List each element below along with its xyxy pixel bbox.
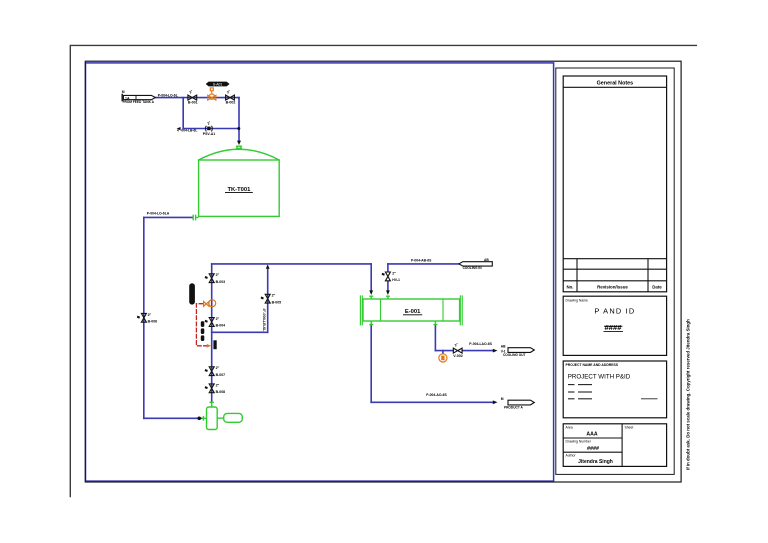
valve B-001 bbox=[188, 95, 197, 100]
valve HV-001 on utility drop bbox=[385, 272, 390, 281]
drawing area blue frame bbox=[86, 63, 554, 481]
svg-text:2″: 2″ bbox=[216, 383, 220, 387]
inline tag at signal arrow bbox=[213, 340, 216, 349]
tank TK-T001 bbox=[193, 146, 279, 221]
valve B-004 below CV bbox=[209, 318, 214, 327]
svg-text:FROM FEED TANK A: FROM FEED TANK A bbox=[123, 100, 155, 104]
bypass valve B-005 bbox=[265, 294, 270, 303]
project box bbox=[563, 361, 666, 418]
stub to TI instrument bbox=[442, 351, 444, 354]
svg-text:PRODUCT A: PRODUCT A bbox=[504, 405, 524, 409]
instrument signal red dashed bbox=[196, 304, 208, 346]
revision table column lines bbox=[576, 259, 578, 292]
pump top stub bbox=[210, 402, 214, 408]
svg-text:PROJECT WITH P&ID: PROJECT WITH P&ID bbox=[568, 374, 631, 381]
svg-text:PROJECT NAME AND ADDRESS: PROJECT NAME AND ADDRESS bbox=[566, 363, 619, 367]
TITLE BLOCK bbox=[563, 76, 666, 466]
svg-text:B-007: B-007 bbox=[216, 373, 226, 377]
pump suction stub bbox=[202, 416, 207, 421]
junction dot bypass/tank feed bbox=[237, 127, 240, 130]
svg-text:B-001: B-001 bbox=[188, 101, 198, 105]
svg-text:PSV-A1: PSV-A1 bbox=[203, 132, 216, 136]
svg-text:COOLING OUT: COOLING OUT bbox=[503, 353, 526, 357]
svg-text:2″: 2″ bbox=[216, 317, 220, 321]
revision table row lines bbox=[563, 258, 666, 260]
pipe: pump discharge riser bbox=[211, 264, 213, 402]
pipe: top header to exchanger bbox=[212, 263, 372, 265]
pipe: utility feed from flag B bbox=[388, 263, 459, 265]
svg-text:No.: No. bbox=[566, 285, 573, 290]
tube sheet lines bbox=[381, 299, 444, 321]
flag A: feed inlet connector bbox=[123, 95, 155, 99]
svg-text:If in doubt ask. Do not scale: If in doubt ask. Do not scale drawing. C… bbox=[686, 319, 691, 470]
svg-text:2″: 2″ bbox=[392, 271, 396, 275]
pipe: exchanger bottom-right outlet drop bbox=[434, 326, 436, 351]
pump motor bbox=[224, 413, 243, 422]
flag B: utility supply connector bbox=[459, 262, 492, 266]
pipe: outlet run to flag D bbox=[371, 401, 494, 403]
pipe: exchanger bottom-left outlet drop bbox=[370, 326, 372, 403]
flag C: cooling return connector bbox=[508, 348, 534, 353]
svg-text:####: #### bbox=[587, 446, 599, 452]
svg-text:Author: Author bbox=[566, 454, 577, 458]
svg-text:B-005: B-005 bbox=[272, 300, 282, 304]
svg-text:2″: 2″ bbox=[216, 366, 220, 370]
svg-text:Revision/Issue: Revision/Issue bbox=[597, 285, 628, 290]
svg-text:P-004-LO-6LA: P-004-LO-6LA bbox=[147, 212, 170, 216]
pipe: pump bypass riser bbox=[267, 268, 269, 332]
arrow at flag D bbox=[493, 400, 498, 404]
general notes header line bbox=[563, 86, 666, 88]
svg-text:####: #### bbox=[605, 323, 623, 332]
right flange plates bbox=[460, 295, 462, 325]
svg-text:Date: Date bbox=[652, 285, 662, 290]
top nozzles bbox=[369, 296, 390, 299]
arrow into exchanger left nozzle bbox=[369, 290, 373, 295]
pipe: bottom run to pump suction bbox=[144, 417, 202, 419]
vertical line label pill lower bbox=[201, 321, 205, 341]
control valve CV-001 on riser bbox=[204, 300, 216, 307]
pipe: exchanger process feed drop bbox=[370, 264, 372, 291]
sheet inner border bbox=[85, 61, 681, 482]
svg-text:AB: AB bbox=[484, 258, 489, 262]
pump P-001 bbox=[202, 402, 243, 430]
valve B-007 above pump bbox=[209, 367, 214, 376]
svg-text:V-002: V-002 bbox=[453, 354, 462, 358]
svg-text:B-008: B-008 bbox=[216, 390, 226, 394]
svg-text:HV-1: HV-1 bbox=[392, 278, 400, 282]
valve B-002 bbox=[226, 95, 235, 100]
svg-text:P AND ID: P AND ID bbox=[594, 307, 635, 316]
left flange plates bbox=[360, 295, 362, 325]
arrow into tank nozzle bbox=[237, 141, 241, 145]
svg-text:AB: AB bbox=[501, 344, 506, 348]
svg-text:M: M bbox=[122, 90, 125, 94]
bottom info box bbox=[563, 424, 666, 467]
control valve CV-A01 bbox=[208, 88, 216, 100]
svg-text:P-004-AB-6S: P-004-AB-6S bbox=[411, 258, 432, 262]
svg-text:2″: 2″ bbox=[148, 313, 152, 317]
svg-text:P-004-AO-6S: P-004-AO-6S bbox=[426, 393, 447, 397]
pipe: tank outlet to left bbox=[144, 216, 193, 218]
svg-text:B-002: B-002 bbox=[226, 101, 236, 105]
svg-text:2″: 2″ bbox=[272, 294, 276, 298]
junction dot at pump suction bbox=[197, 417, 201, 421]
svg-text:S-A01: S-A01 bbox=[213, 82, 223, 86]
svg-text:E-001: E-001 bbox=[405, 309, 421, 315]
drawing name box bbox=[563, 296, 666, 355]
pipe: pump bypass bottom run bbox=[212, 331, 268, 333]
svg-text:Drawing Name: Drawing Name bbox=[566, 298, 589, 302]
general notes box bbox=[563, 76, 666, 292]
title block texts bbox=[566, 80, 663, 465]
svg-text:Sheet: Sheet bbox=[625, 426, 634, 430]
svg-text:P-004-LO-6L: P-004-LO-6L bbox=[158, 93, 178, 97]
sheet outer border (partial: top + left) bbox=[70, 45, 697, 497]
check valve above pump bbox=[209, 384, 214, 393]
tank bottom-left nozzle bbox=[193, 215, 198, 221]
svg-text:P-004-LAO-6S: P-004-LAO-6S bbox=[469, 342, 492, 346]
bottom nozzles bbox=[369, 321, 437, 325]
valve V-002 on cooling outlet bbox=[453, 348, 462, 353]
pipe: left downcomer bbox=[143, 217, 145, 418]
svg-text:TK-T001: TK-T001 bbox=[227, 187, 251, 193]
orange arrow signal to riser bbox=[207, 344, 211, 348]
svg-text:COOLING IN: COOLING IN bbox=[463, 266, 483, 270]
svg-text:General Notes: General Notes bbox=[597, 80, 634, 86]
heat exchanger E-001 bbox=[360, 295, 462, 325]
svg-text:B-004: B-004 bbox=[216, 324, 226, 328]
valve B-003 on riser top bbox=[209, 274, 214, 283]
bottom box divider bbox=[621, 424, 623, 467]
flag D: product out connector bbox=[508, 400, 534, 405]
svg-text:4″-004-LB-6L: 4″-004-LB-6L bbox=[262, 309, 266, 333]
arrow bypass joins header bbox=[266, 264, 270, 268]
pipe: utility drop upper bbox=[387, 264, 389, 271]
svg-text:2″: 2″ bbox=[216, 273, 220, 277]
pump shaft bbox=[217, 417, 224, 419]
svg-text:AAA: AAA bbox=[586, 431, 597, 437]
vertical line label pill left bbox=[189, 283, 195, 304]
title block outer boundary bbox=[556, 68, 674, 474]
pipe: tank feed drop bbox=[238, 98, 240, 141]
svg-text:Jitendra Singh: Jitendra Singh bbox=[578, 459, 613, 465]
utility banner flag S-A01 bbox=[206, 82, 230, 87]
svg-text:B-003: B-003 bbox=[216, 280, 226, 284]
valve B-006 on left downcomer bbox=[141, 313, 146, 322]
arrow at flag C bbox=[493, 349, 498, 353]
pipe: valve Vg to flag C bbox=[462, 350, 494, 352]
TI instrument orange balloon bbox=[439, 354, 447, 362]
pipe: bypass drop at x=183 bbox=[182, 98, 184, 129]
pipe: PSV bypass horizontal bbox=[183, 128, 239, 130]
pipe: outlet run to valve Vg bbox=[435, 350, 453, 352]
DRAWING AREA CONTENT bbox=[144, 98, 498, 421]
arrow into exchanger right nozzle bbox=[386, 290, 390, 295]
svg-text:Drawing Number: Drawing Number bbox=[566, 440, 592, 444]
PSV-A1 on bypass bbox=[206, 126, 213, 132]
pipe: inlet header from flag A to tank feed corner bbox=[155, 97, 239, 99]
tank top nozzle bbox=[236, 146, 242, 150]
svg-text:4″-004-LB-6L: 4″-004-LB-6L bbox=[177, 129, 197, 133]
svg-text:B-006: B-006 bbox=[148, 319, 158, 323]
pipe: utility drop lower bbox=[387, 282, 389, 291]
left arrow at bypass label bbox=[177, 127, 181, 130]
svg-text:M: M bbox=[501, 397, 504, 401]
svg-text:Area: Area bbox=[566, 426, 573, 430]
